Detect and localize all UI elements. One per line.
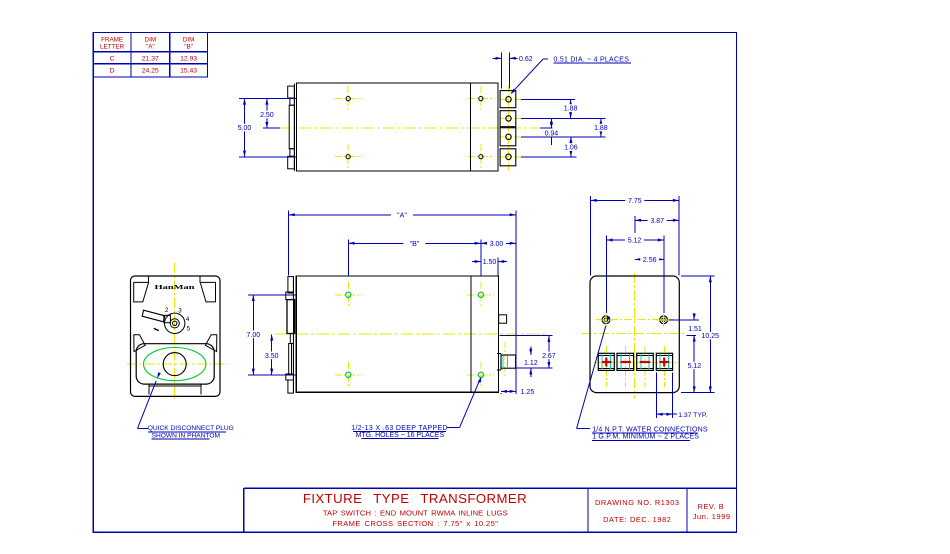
svg-text:12.93: 12.93	[180, 55, 197, 62]
svg-text:1.88: 1.88	[594, 125, 608, 132]
leader quick disconnect	[157, 372, 161, 378]
front view mid-right gusset	[205, 335, 216, 352]
top view body	[297, 83, 499, 171]
svg-text:3: 3	[178, 308, 182, 315]
leader mtg holes note	[478, 377, 482, 383]
dimension 1.12	[530, 346, 532, 355]
dimension 0.94	[550, 118, 552, 128]
front view centerline vertical	[174, 263, 176, 399]
quick disconnect plug phantom (green)	[144, 348, 206, 381]
svg-text:3.87: 3.87	[650, 218, 664, 225]
dimension 0.62	[493, 57, 502, 59]
front view centerline horizontal	[127, 363, 228, 365]
plug center hole	[163, 353, 186, 376]
dimension 3.00	[481, 242, 516, 244]
dimension 7.00 extension lines	[248, 294, 296, 296]
svg-text:24.25: 24.25	[142, 68, 159, 75]
dimension 5.12 top	[606, 239, 664, 241]
svg-text:1/2-13 X .63 DEEP TAPPED: 1/2-13 X .63 DEEP TAPPED	[351, 425, 448, 432]
svg-text:"A": "A"	[397, 212, 407, 219]
dimension 1.37 extension lines	[655, 372, 657, 418]
top view mounting holes	[346, 97, 350, 101]
svg-text:HanMan: HanMan	[155, 284, 196, 291]
top view lug centerline vertical	[508, 86, 510, 171]
dimension 1.25	[501, 390, 516, 392]
end view lug centerlines vertical	[605, 346, 607, 387]
front view top-right gusset	[200, 282, 215, 302]
svg-text:Jun. 1999: Jun. 1999	[693, 512, 731, 521]
side view inline lug	[501, 355, 516, 368]
front view body	[131, 276, 221, 396]
svg-text:5.00: 5.00	[238, 125, 252, 132]
svg-text:FIXTURE TYPE TRANSFORMER: FIXTURE TYPE TRANSFORMER	[303, 491, 527, 506]
top view centerline horizontal	[278, 127, 538, 129]
front view top-left gusset	[134, 282, 149, 302]
svg-text:1 G.P.M. MINIMUM ~ 2 PLACES: 1 G.P.M. MINIMUM ~ 2 PLACES	[592, 434, 699, 441]
svg-text:0.51 DIA. ~ 4 PLACES: 0.51 DIA. ~ 4 PLACES	[554, 56, 630, 63]
end view lug row centerline	[594, 362, 680, 364]
side view body	[296, 276, 498, 392]
svg-text:21.37: 21.37	[142, 55, 159, 62]
svg-text:1.51: 1.51	[688, 326, 702, 333]
dimension 2.50	[266, 98, 268, 128]
water connection holes	[602, 316, 610, 324]
svg-text:C: C	[110, 55, 115, 62]
svg-text:5: 5	[187, 326, 191, 333]
svg-text:15.43: 15.43	[180, 68, 197, 75]
end view centerline vertical	[633, 273, 635, 399]
svg-text:1.25: 1.25	[521, 389, 535, 396]
svg-text:2.50: 2.50	[260, 112, 274, 119]
dimension B extension lines	[347, 239, 349, 275]
dimension B	[348, 242, 481, 244]
svg-text:"B": "B"	[184, 44, 193, 51]
lug phantom lines cyan	[601, 354, 603, 369]
svg-text:1.06: 1.06	[564, 145, 578, 152]
dimension 1.25 extension line	[500, 393, 502, 394]
svg-text:0.62: 0.62	[519, 56, 533, 63]
svg-text:1.50: 1.50	[483, 259, 497, 266]
dimension 5.12 right	[693, 335, 695, 392]
dimension 1.06	[570, 137, 572, 157]
dimension 1.37 TYP	[656, 413, 672, 415]
dimension 3.87	[635, 219, 679, 221]
top view centerline vertical left holes	[347, 86, 349, 112]
svg-text:5.12: 5.12	[628, 238, 642, 245]
dimension 3.87 extension line	[634, 216, 636, 233]
svg-text:REV. B: REV. B	[698, 502, 725, 511]
top view lug row extension lines	[521, 98, 575, 100]
centerline extension for 0.94	[540, 127, 553, 129]
top view lug row centerlines	[500, 98, 524, 100]
side view lug centerline	[504, 342, 506, 376]
dimension 1.50 extension line	[497, 257, 499, 275]
svg-text:2: 2	[165, 307, 169, 314]
tap switch lever	[142, 310, 165, 322]
svg-text:MTG. HOLES ~ 16 PLACES: MTG. HOLES ~ 16 PLACES	[356, 432, 445, 439]
lug polarity marks red	[602, 361, 611, 363]
front view top notches	[148, 276, 150, 282]
end view terminal lugs	[598, 353, 614, 370]
top view mounting bracket	[293, 83, 295, 170]
end view body outline	[590, 276, 679, 393]
dimension 2.67	[548, 336, 550, 369]
svg-text:1.88: 1.88	[564, 106, 578, 113]
side view tapped mounting holes	[346, 292, 351, 297]
svg-text:2.67: 2.67	[542, 353, 556, 360]
svg-text:LETTER: LETTER	[100, 44, 125, 51]
dimension 1.51 extension lines	[669, 319, 700, 321]
svg-text:DATE: DEC. 1982: DATE: DEC. 1982	[603, 515, 671, 524]
title block box	[244, 487, 737, 489]
svg-text:4: 4	[186, 316, 190, 323]
top view lug holes 0.51 dia	[506, 97, 511, 102]
svg-text:"B": "B"	[410, 241, 420, 248]
svg-text:0.94: 0.94	[545, 130, 559, 137]
svg-text:DIM: DIM	[183, 37, 195, 44]
svg-text:5.12: 5.12	[688, 363, 702, 370]
side view hole centerlines	[347, 282, 349, 308]
drawing border frame	[93, 33, 736, 533]
svg-text:1.37 TYP.: 1.37 TYP.	[678, 412, 707, 419]
leader water connections	[607, 316, 610, 322]
frame size table	[93, 33, 207, 78]
svg-text:7.75: 7.75	[628, 198, 642, 205]
dimension 5.00	[244, 98, 246, 156]
svg-text:DRAWING NO. R1303: DRAWING NO. R1303	[595, 498, 680, 507]
dimension 1.88 upper	[570, 99, 572, 118]
dimension A	[289, 214, 516, 216]
label 0.51 DIA 4 places leader	[543, 58, 548, 60]
svg-text:7.00: 7.00	[246, 332, 260, 339]
quick disconnect plug housing	[136, 344, 214, 384]
end view centerline horizontal	[581, 333, 685, 335]
side view lug phantom lines cyan	[502, 356, 504, 368]
svg-text:3.50: 3.50	[265, 353, 279, 360]
dimension 0.62 extension lines	[501, 53, 503, 89]
dimension 10.25	[709, 276, 711, 393]
svg-text:FRAME CROSS SECTION : 7.75" x: FRAME CROSS SECTION : 7.75" x 10.25"	[332, 519, 498, 528]
svg-text:SHOWN IN PHANTOM: SHOWN IN PHANTOM	[152, 432, 220, 439]
side view centerline horizontal	[275, 333, 545, 335]
svg-text:"A": "A"	[146, 44, 155, 51]
dimension 3.50	[271, 334, 273, 375]
side view right small tab	[499, 315, 507, 323]
top view terminal lugs	[500, 91, 516, 108]
dimension 2.56	[635, 258, 664, 260]
side view mounting bracket	[292, 276, 294, 392]
dimension 10.25 extension lines	[681, 275, 715, 277]
top view centerline vertical right holes	[480, 86, 482, 112]
svg-text:TAP SWITCH : END MOUNT RWMA IN: TAP SWITCH : END MOUNT RWMA INLINE LUGS	[323, 509, 508, 518]
dimension 1.51	[693, 313, 695, 320]
dimension 2.67 extension lines	[500, 335, 553, 337]
svg-text:3.00: 3.00	[490, 241, 504, 248]
dimension 1.88 lower	[600, 118, 602, 136]
plug bottom band	[149, 385, 201, 387]
svg-text:QUICK DISCONNECT PLUG: QUICK DISCONNECT PLUG	[148, 425, 234, 432]
front view mid-left gusset	[134, 335, 145, 352]
dimension A extension lines	[288, 211, 290, 276]
svg-text:DIM: DIM	[145, 37, 157, 44]
svg-text:D: D	[110, 68, 115, 75]
end view water hole centerline	[596, 318, 674, 320]
dimension 7.00	[252, 295, 254, 375]
dimension 1.50	[472, 261, 481, 263]
dimension 5.12 extension lines	[605, 236, 607, 314]
dimension 5.00 extension lines	[239, 97, 296, 99]
svg-text:FRAME: FRAME	[101, 37, 123, 44]
svg-text:2.56: 2.56	[643, 257, 657, 264]
svg-text:10.25: 10.25	[702, 333, 720, 340]
dimension 7.75 extension lines	[590, 196, 592, 276]
dimension 7.75	[591, 199, 680, 201]
svg-text:1.12: 1.12	[524, 360, 538, 367]
top view hole cross lines	[335, 98, 362, 100]
tap switch plate circle	[165, 313, 185, 333]
svg-text:1/4 N.P.T. WATER CONNECTIONS: 1/4 N.P.T. WATER CONNECTIONS	[592, 426, 708, 433]
